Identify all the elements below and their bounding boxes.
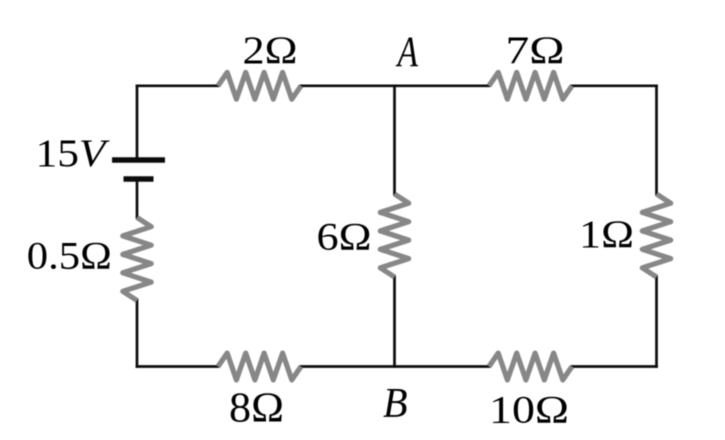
- wire top-middle segment: [301, 84, 489, 87]
- wire top-left segment: [137, 84, 218, 87]
- svg-text:7Ω: 7Ω: [506, 29, 565, 72]
- resistor 7ohm (top right): [489, 72, 572, 99]
- svg-text:0.5Ω: 0.5Ω: [27, 235, 112, 278]
- resistor 10ohm (bottom right): [489, 353, 572, 380]
- svg-text:6Ω: 6Ω: [317, 216, 372, 259]
- wire top-right segment: [572, 84, 657, 87]
- wire right lower segment: [655, 277, 658, 367]
- svg-text:A: A: [395, 29, 418, 76]
- battery V1 short plate (negative): [124, 176, 154, 182]
- battery V1 long plate (positive): [112, 157, 165, 162]
- svg-text:2Ω: 2Ω: [243, 29, 298, 72]
- svg-text:10Ω: 10Ω: [489, 389, 569, 432]
- resistor 6ohm (middle branch): [380, 194, 408, 277]
- wire bottom-left segment: [137, 365, 218, 368]
- wire left upper segment: [136, 86, 139, 158]
- resistor 2ohm (top left): [218, 72, 301, 99]
- wire middle upper segment: [393, 86, 396, 194]
- resistor 1ohm (right branch): [642, 194, 670, 277]
- wire right upper segment: [655, 86, 658, 194]
- wire left lower segment: [136, 300, 139, 367]
- svg-text:B: B: [383, 381, 408, 427]
- wire bottom-right segment: [572, 365, 657, 368]
- wire bottom-middle segment: [301, 365, 489, 368]
- svg-text:1Ω: 1Ω: [579, 213, 634, 256]
- wire middle lower segment: [393, 277, 396, 367]
- svg-text:8Ω: 8Ω: [229, 386, 284, 432]
- svg-text:15V: 15V: [36, 132, 111, 175]
- resistor 0.5ohm (left branch): [123, 218, 151, 301]
- resistor 8ohm (bottom left): [218, 353, 301, 380]
- wire left middle segment: [136, 182, 139, 218]
